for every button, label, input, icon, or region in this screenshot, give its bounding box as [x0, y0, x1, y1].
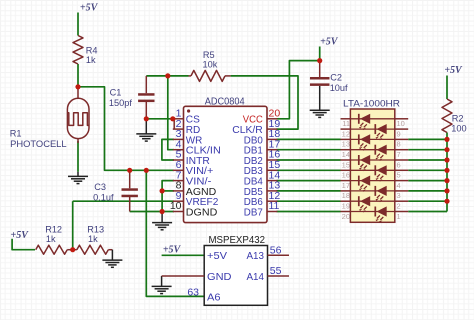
svg-text:0.1uf: 0.1uf: [93, 193, 114, 203]
svg-text:R13: R13: [87, 225, 104, 235]
svg-text:9: 9: [397, 129, 401, 138]
svg-text:+5V: +5V: [320, 37, 339, 48]
svg-text:11: 11: [342, 119, 350, 128]
svg-text:1k: 1k: [88, 234, 98, 244]
svg-text:DGND: DGND: [186, 206, 218, 218]
svg-text:10: 10: [170, 200, 182, 212]
svg-text:3: 3: [397, 191, 401, 200]
svg-text:A14: A14: [247, 271, 265, 283]
svg-text:10k: 10k: [203, 59, 218, 69]
svg-text:5: 5: [397, 171, 401, 180]
svg-text:56: 56: [270, 245, 282, 257]
svg-text:100: 100: [451, 124, 466, 134]
svg-text:17: 17: [342, 181, 350, 190]
svg-text:ADC0804: ADC0804: [205, 97, 245, 108]
svg-text:1k: 1k: [86, 55, 96, 65]
svg-text:R12: R12: [45, 225, 62, 235]
svg-text:63: 63: [187, 287, 199, 299]
svg-text:16: 16: [342, 171, 350, 180]
svg-text:+5V: +5V: [11, 230, 30, 241]
svg-text:8: 8: [397, 140, 401, 149]
svg-text:150pf: 150pf: [109, 98, 132, 108]
svg-text:GND: GND: [207, 271, 232, 283]
svg-text:MSPEXP432: MSPEXP432: [209, 234, 266, 246]
svg-text:R1: R1: [10, 129, 22, 139]
svg-text:A13: A13: [247, 250, 265, 262]
svg-text:6: 6: [397, 160, 401, 169]
svg-text:1k: 1k: [46, 234, 56, 244]
svg-text:+5V: +5V: [163, 244, 182, 255]
svg-text:C2: C2: [330, 73, 342, 83]
svg-text:2: 2: [397, 202, 401, 211]
svg-text:11: 11: [269, 200, 280, 212]
svg-text:R2: R2: [452, 114, 464, 124]
svg-text:+5V: +5V: [207, 250, 227, 262]
svg-text:C1: C1: [110, 88, 122, 98]
svg-text:15: 15: [342, 160, 350, 169]
svg-text:+5V: +5V: [80, 3, 99, 14]
svg-text:PHOTOCELL: PHOTOCELL: [10, 139, 67, 149]
svg-text:A6: A6: [207, 291, 221, 303]
svg-text:14: 14: [342, 150, 350, 159]
svg-text:1: 1: [397, 212, 401, 221]
svg-text:4: 4: [397, 181, 401, 190]
svg-text:+5V: +5V: [444, 65, 463, 76]
svg-text:55: 55: [270, 265, 282, 277]
svg-text:10uf: 10uf: [330, 83, 348, 93]
svg-text:20: 20: [342, 212, 350, 221]
svg-text:19: 19: [342, 202, 350, 211]
svg-text:7: 7: [397, 150, 401, 159]
svg-text:18: 18: [342, 191, 350, 200]
svg-text:12: 12: [342, 129, 350, 138]
svg-text:13: 13: [342, 140, 350, 149]
svg-text:DB7: DB7: [244, 206, 263, 218]
svg-text:LTA-1000HR: LTA-1000HR: [343, 99, 400, 110]
svg-text:10: 10: [397, 119, 405, 128]
svg-text:C3: C3: [94, 182, 106, 192]
